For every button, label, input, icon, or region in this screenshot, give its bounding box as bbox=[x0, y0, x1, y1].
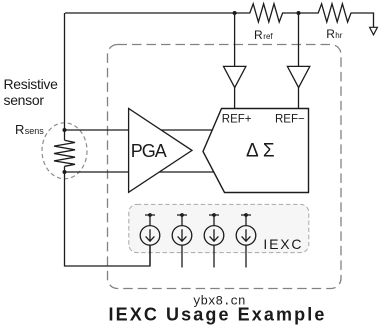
sensor dashed ellipse bbox=[42, 123, 87, 179]
wire buffer left bbox=[234, 13, 236, 109]
current source I1 bbox=[140, 215, 160, 266]
resistor R_sens zigzag bbox=[54, 140, 75, 166]
buffer U2 triangle bbox=[287, 66, 309, 87]
wire buffer right bbox=[298, 13, 300, 109]
wire sensor bottom to IEXC bbox=[65, 166, 151, 266]
current source I3 bbox=[204, 215, 224, 268]
svg-text:Resistive: Resistive bbox=[4, 76, 59, 92]
IEXC block dashed box bbox=[129, 204, 309, 252]
svg-text:sensor: sensor bbox=[4, 92, 45, 108]
svg-text:Δ Σ: Δ Σ bbox=[246, 141, 275, 162]
node junction dot top left bbox=[233, 11, 237, 15]
wire left vertical bbox=[64, 13, 66, 140]
node junction dot sensor top bbox=[63, 128, 67, 132]
op-amp PGA triangle bbox=[129, 109, 192, 193]
svg-text:ref: ref bbox=[263, 32, 273, 41]
svg-text:hr: hr bbox=[335, 31, 342, 40]
chip boundary dashed box bbox=[108, 45, 342, 289]
svg-text:R: R bbox=[15, 122, 24, 137]
delta-sigma ADC block bbox=[203, 109, 309, 193]
wire PGA input+ bbox=[65, 129, 214, 131]
buffer U1 triangle bbox=[224, 66, 246, 87]
current source I4 bbox=[236, 215, 256, 268]
svg-text:R: R bbox=[326, 27, 335, 41]
svg-text:PGA: PGA bbox=[131, 141, 167, 161]
wire PGA input- bbox=[65, 171, 215, 173]
svg-text:REF+: REF+ bbox=[222, 113, 252, 125]
svg-text:R: R bbox=[254, 28, 263, 42]
svg-text:IEXC Usage Example: IEXC Usage Example bbox=[109, 305, 327, 325]
wire top rail with resistor R_ref and resistor R_hr bbox=[65, 4, 374, 28]
svg-text:sens: sens bbox=[25, 126, 45, 136]
current source I2 bbox=[172, 215, 192, 268]
arrow terminal bbox=[370, 27, 378, 35]
node junction dot sensor bottom bbox=[63, 170, 67, 174]
svg-text:IEXC: IEXC bbox=[263, 236, 303, 252]
node junction dot top right bbox=[297, 11, 301, 15]
svg-text:REF−: REF− bbox=[275, 113, 305, 125]
